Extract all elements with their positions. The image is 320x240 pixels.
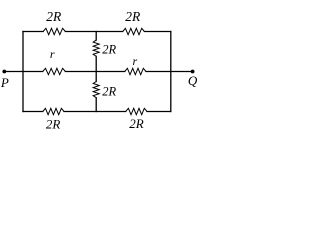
wire top rail right segment xyxy=(144,31,170,33)
svg-text:r: r xyxy=(132,54,137,68)
svg-text:2R: 2R xyxy=(102,85,116,99)
resistor 2R bottom-left xyxy=(43,108,64,114)
wire bottom rail left segment xyxy=(23,111,43,113)
resistor 2R bottom-right xyxy=(126,108,147,114)
wire top rail left segment xyxy=(23,31,43,33)
wire middle rail segment xyxy=(65,71,124,73)
node P terminal dot xyxy=(2,70,6,74)
resistor 2R top-left xyxy=(43,28,65,34)
node Q terminal dot xyxy=(191,70,195,74)
svg-text:2R: 2R xyxy=(46,116,61,131)
wire left bus xyxy=(22,32,24,112)
wire bottom rail middle segment xyxy=(64,111,126,113)
wire right bus xyxy=(170,32,172,112)
resistor 2R top-right xyxy=(123,28,145,34)
svg-text:2R: 2R xyxy=(102,43,116,57)
svg-text:2R: 2R xyxy=(125,9,141,24)
wire bottom rail right segment xyxy=(147,111,171,113)
wire center column bottom lead xyxy=(95,98,97,112)
wire Q lead xyxy=(146,71,193,73)
resistor r middle-left xyxy=(43,68,66,74)
resistor r middle-right xyxy=(125,68,146,74)
svg-text:P: P xyxy=(0,75,9,90)
svg-text:2R: 2R xyxy=(46,9,62,24)
svg-text:2R: 2R xyxy=(129,116,144,131)
wire center column middle leads xyxy=(95,56,97,81)
resistor 2R center lower xyxy=(93,82,99,98)
wire top rail middle segment xyxy=(65,31,122,33)
wire center column top lead xyxy=(95,32,97,41)
resistor 2R center upper xyxy=(93,40,99,56)
svg-text:r: r xyxy=(50,47,55,61)
wire P lead xyxy=(4,71,42,73)
svg-text:Q: Q xyxy=(188,73,198,88)
